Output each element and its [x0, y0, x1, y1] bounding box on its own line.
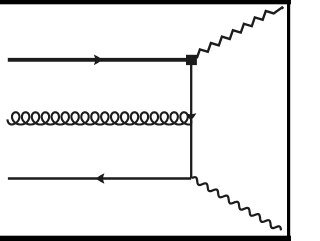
frame: bottom border — [0, 236, 291, 241]
vertex: counterterm square blob — [186, 55, 197, 65]
arrowhead on top fermion line — [94, 55, 103, 66]
gluon: coiled line — [7, 112, 191, 124]
frame: top border — [0, 0, 291, 4]
wire: incoming quark line (thick fermion, top) — [8, 58, 187, 62]
wire: outgoing antiquark line (bottom fermion) — [8, 177, 191, 179]
frame: right border — [287, 0, 290, 241]
photon: zigzag line to top-right — [197, 7, 283, 58]
wire: internal fermion propagator (vertical) — [190, 60, 192, 178]
arrowhead on vertical propagator — [185, 113, 196, 120]
photon: wavy line to bottom-right — [192, 177, 281, 230]
arrowhead on bottom fermion line — [96, 173, 105, 184]
